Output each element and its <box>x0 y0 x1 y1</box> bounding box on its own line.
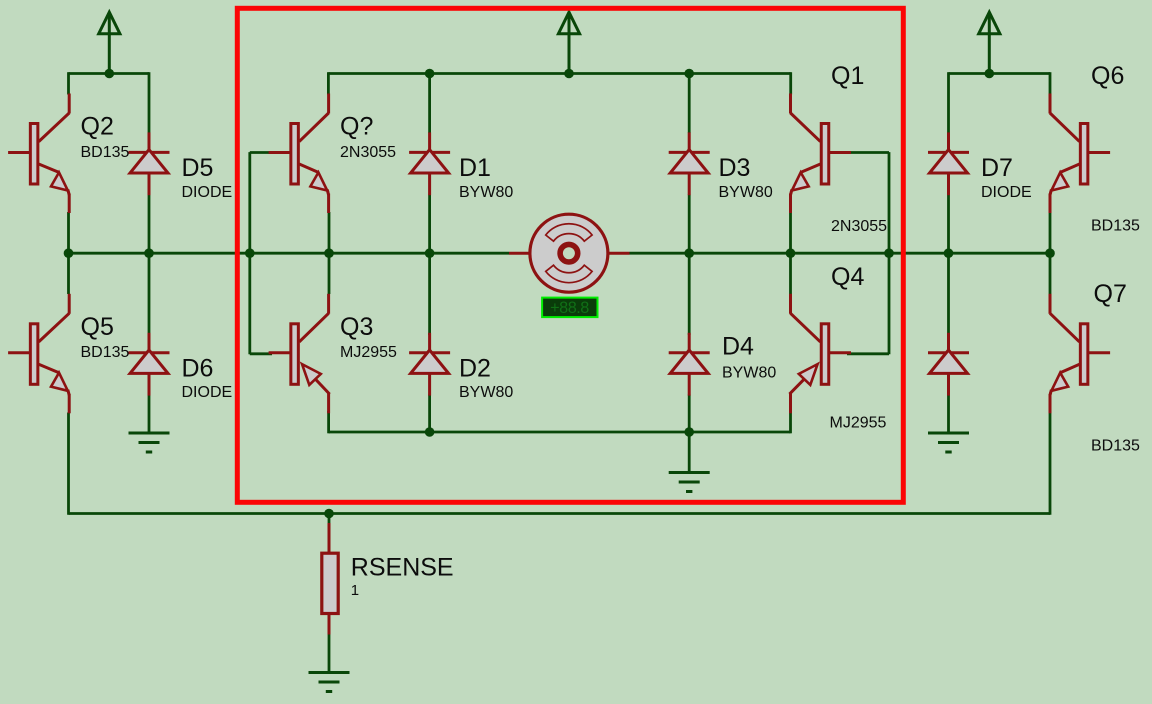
svg-text:DIODE: DIODE <box>182 184 233 201</box>
junction center node B <box>144 248 154 258</box>
wire D1 top drop <box>428 72 431 133</box>
power symbol VCC left <box>99 12 120 73</box>
wire rsense top link <box>328 514 331 525</box>
svg-text:D7: D7 <box>981 154 1013 182</box>
wire Q4 base stub <box>847 352 889 355</box>
wire V+ rail right <box>949 72 1051 75</box>
svg-text:Q3: Q3 <box>340 313 373 341</box>
junction center node J <box>1045 248 1055 258</box>
svg-text:D6: D6 <box>182 355 214 383</box>
wire D4 bottom drop <box>688 395 691 434</box>
diode D4 <box>669 333 710 396</box>
wire inner ground stub <box>688 432 691 471</box>
wire Q4 collector drop <box>789 253 792 294</box>
svg-text:1: 1 <box>351 582 359 599</box>
svg-text:BD135: BD135 <box>1091 438 1140 455</box>
wire Q1 emitter drop <box>789 212 792 253</box>
junction sense node <box>324 509 334 519</box>
wire inner emitter bus <box>329 431 791 434</box>
wire Q? base stub <box>250 151 272 154</box>
wire D6 top drop <box>148 253 151 335</box>
junction rail-D1 <box>425 69 435 79</box>
wire D8 top drop <box>947 253 950 335</box>
motor body <box>530 214 608 292</box>
wire Q3 emitter drop <box>327 411 330 433</box>
motor right pin <box>609 252 630 255</box>
wire D1 bottom drop <box>428 195 431 254</box>
wire D7 bottom drop <box>947 195 950 254</box>
junction center node I <box>944 248 954 258</box>
wire D3 bottom drop <box>688 195 691 254</box>
svg-text:BD135: BD135 <box>81 344 130 361</box>
svg-text:D2: D2 <box>459 355 491 383</box>
junction center node G <box>786 248 796 258</box>
wire D2 bottom drop <box>428 395 431 434</box>
transistor Q4 MJ2955 <box>790 294 852 414</box>
svg-text:RSENSE: RSENSE <box>351 554 454 582</box>
svg-text:BD135: BD135 <box>81 144 130 161</box>
wire rsense bottom link <box>328 633 331 671</box>
motor display +88.8 <box>542 298 597 318</box>
svg-text:BYW80: BYW80 <box>459 184 513 201</box>
junction center node C <box>245 248 255 258</box>
transistor Q2 BD135 <box>8 94 69 214</box>
svg-text:Q4: Q4 <box>831 263 864 291</box>
junction rail-VCC <box>564 69 574 79</box>
svg-text:BYW80: BYW80 <box>459 384 513 401</box>
diode D7 <box>928 132 969 195</box>
svg-text:BYW80: BYW80 <box>719 184 773 201</box>
junction rail-D3 <box>684 69 694 79</box>
wire Q7 collector drop <box>1049 253 1052 294</box>
svg-text:DIODE: DIODE <box>182 384 233 401</box>
transistor Q5 BD135 <box>8 294 69 414</box>
junction inner node D2 <box>425 427 435 437</box>
wire Q6 emitter drop <box>1049 212 1052 253</box>
wire Q5 collector drop <box>67 253 70 294</box>
motor left pin <box>509 252 530 255</box>
transistor Q1 2N3055 <box>791 94 852 214</box>
svg-text:+88.8: +88.8 <box>550 299 589 317</box>
svg-text:D3: D3 <box>719 154 751 182</box>
wire D5 top drop <box>148 72 151 133</box>
svg-text:BD135: BD135 <box>1091 218 1140 235</box>
ground GND inner <box>669 473 710 492</box>
wire Q7 emitter drop <box>1049 413 1052 515</box>
svg-text:Q6: Q6 <box>1091 62 1124 90</box>
wire center bus left <box>69 252 510 255</box>
wire Q1 collector drop <box>789 72 792 94</box>
wire D4 top drop <box>688 253 691 335</box>
svg-text:BYW80: BYW80 <box>722 365 776 382</box>
wire D7 top drop <box>947 72 950 133</box>
diode D1 <box>409 132 450 195</box>
wire Q?/Q3 base link <box>248 152 251 354</box>
svg-text:Q2: Q2 <box>81 113 114 141</box>
wire D5 bottom drop <box>148 195 151 254</box>
wire center bus right <box>630 252 1051 255</box>
wire Q3 base stub <box>250 352 272 355</box>
junction right rail <box>985 69 995 79</box>
ground GND D8 <box>928 433 969 452</box>
wire D6 ground drop <box>148 395 151 433</box>
junction center node H <box>884 248 894 258</box>
transistor Q7 BD135 <box>1050 294 1110 414</box>
diode D5 <box>129 132 170 195</box>
svg-text:D5: D5 <box>182 154 214 182</box>
transistor Q3 MJ2955 <box>269 294 330 414</box>
wire V+ rail left <box>69 72 150 75</box>
svg-text:MJ2955: MJ2955 <box>830 414 887 431</box>
wire Q? emitter drop <box>328 212 331 253</box>
svg-text:Q?: Q? <box>340 113 373 141</box>
wire D8 ground drop <box>947 395 950 433</box>
wire V+ rail center <box>328 72 790 75</box>
power symbol VCC right <box>979 12 1000 73</box>
power symbol VCC center <box>558 12 579 73</box>
wire D3 top drop <box>688 72 691 133</box>
svg-text:Q5: Q5 <box>81 313 114 341</box>
highlight box <box>237 8 903 502</box>
wire Q5 emitter drop <box>67 413 70 515</box>
svg-text:2N3055: 2N3055 <box>831 218 887 235</box>
diode D2 <box>409 333 450 396</box>
ground GND D6 <box>129 433 170 452</box>
transistor Q? 2N3055 <box>269 94 329 214</box>
wire Q? collector drop <box>327 72 330 94</box>
svg-text:Q1: Q1 <box>831 62 864 90</box>
diode D8 <box>928 333 969 396</box>
svg-text:2N3055: 2N3055 <box>340 144 396 161</box>
diode D3 <box>669 132 710 195</box>
junction center node A <box>64 248 74 258</box>
wire Q3 collector drop <box>328 253 331 294</box>
svg-text:Q7: Q7 <box>1094 280 1127 308</box>
junction left rail <box>105 69 115 79</box>
wire Q1 base stub <box>847 151 889 154</box>
wire Q4 emitter drop <box>789 411 792 433</box>
svg-text:DIODE: DIODE <box>981 184 1032 201</box>
svg-text:D4: D4 <box>722 333 754 361</box>
wire D2 top drop <box>428 253 431 335</box>
diode D6 <box>129 333 170 396</box>
junction center node D <box>324 248 334 258</box>
svg-text:D1: D1 <box>459 154 491 182</box>
junction center node F <box>684 248 694 258</box>
wire Q2 collector drop <box>67 72 70 94</box>
wire Q2 emitter drop <box>67 212 70 253</box>
ground GND RSENSE <box>309 673 350 692</box>
wire sense bus <box>69 512 1051 515</box>
svg-text:MJ2955: MJ2955 <box>340 344 397 361</box>
junction inner node gnd <box>684 427 694 437</box>
resistor RSENSE <box>322 523 338 635</box>
transistor Q6 BD135 <box>1050 94 1110 214</box>
junction center node E <box>425 248 435 258</box>
wire Q6 collector drop <box>1049 72 1052 94</box>
wire Q1/Q4 base link <box>888 152 891 354</box>
